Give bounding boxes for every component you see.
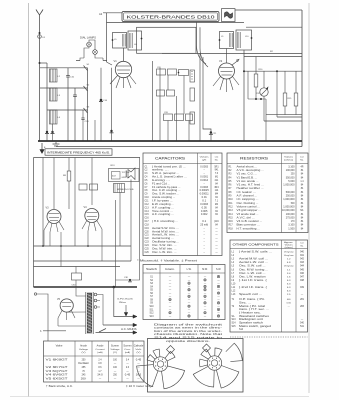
wire vertical x189 (188, 121, 190, 142)
svg-text:Ae.L.S. (transf.) after ...: Ae.L.S. (transf.) after ... (152, 176, 187, 179)
wire chassis bus thick (38, 140, 302, 142)
wire y114 (266, 114, 302, 116)
svg-text:Osc. M.W. tuning ...: Osc. M.W. tuning ... (239, 268, 269, 271)
svg-text:C15: C15 (145, 214, 150, 216)
wire top HT bus (235, 9, 302, 11)
svg-text:V1 Band E.B. ...: V1 Band E.B. ... (237, 177, 258, 179)
wire vertical x54 to V3 (53, 158, 55, 210)
svg-text:I.F. leakor ...: I.F. leakor ... (237, 191, 257, 194)
svg-text:Valve: Valve (56, 346, 64, 348)
capacitor C21 (210, 131, 212, 133)
svg-text:V3 grid stopper ...: V3 grid stopper ... (237, 209, 262, 212)
svg-text:Very low: Very low (284, 251, 294, 254)
svg-text:F1 cathode by-pass ...: F1 cathode by-pass ... (152, 186, 181, 189)
svg-text:C25: C25 (145, 248, 150, 250)
svg-text:RESISTORS: RESISTORS (240, 157, 268, 161)
svg-text:A.F. channel ...: A.F. channel ... (237, 195, 258, 198)
svg-text:(ohms): (ohms) (284, 160, 293, 162)
label b arrow (40, 330, 66, 333)
wire x200 long vertical (199, 53, 201, 141)
wire vertical x176 (176, 96, 178, 141)
svg-text:C19: C19 (145, 228, 150, 230)
svg-text:V1: V1 (114, 59, 118, 63)
resistor R8 (63, 158, 71, 210)
svg-text:Osc. L.W. coil ...: Osc. L.W. coil ... (239, 273, 266, 275)
svg-text:C22: C22 (145, 238, 150, 240)
wire vertical x88 low (87, 231, 89, 246)
valve V4 output (84, 206, 99, 223)
capacitor C30 (72, 273, 82, 287)
resistor R1 column (190, 112, 195, 124)
svg-text:R18: R18 (229, 228, 234, 230)
svg-text:C24: C24 (145, 245, 150, 247)
svg-text:(ohms): (ohms) (285, 247, 293, 249)
svg-text:Tone control ...: Tone control ... (152, 210, 173, 213)
svg-text:C18: C18 (145, 224, 150, 226)
svg-text:Volt.: Volt. (135, 348, 142, 351)
svg-text:V2: V2 (219, 59, 223, 63)
capacitor C10 (66, 68, 75, 141)
svg-text:Voltage: Voltage (79, 348, 89, 351)
valve base diagram box (148, 339, 244, 393)
capacitor C26 box (164, 112, 184, 121)
valve V2 IF amplifier (219, 59, 235, 79)
svg-text:0.01: 0.01 (202, 197, 208, 199)
mains transformer T4 core (86, 292, 93, 334)
svg-text:1,000,000: 1,000,000 (283, 185, 295, 187)
svg-text:0.05: 0.05 (202, 207, 208, 209)
wire mains lead 2 arrow (96, 331, 138, 334)
wire tap leads (97, 295, 103, 326)
svg-text:275,000: 275,000 (286, 217, 296, 219)
capacitor C38 (129, 279, 131, 281)
svg-text:Gram.: Gram. (165, 268, 175, 271)
wire vertical x102 low (101, 229, 103, 261)
capacitor C11 column (190, 88, 195, 101)
wire grid line under title (107, 21, 245, 23)
wire vertical x168 (167, 75, 169, 90)
svg-text:* Micamold. † Variable.: * Micamold. † Variable. ‡ Preset (137, 260, 198, 263)
valve V1 triode-hexode (114, 59, 132, 78)
svg-text:V1 osc. H.T. feed ...: V1 osc. H.T. feed ... (237, 185, 265, 187)
svg-text:C23: C23 (145, 242, 150, 244)
svg-text:265†: 265† (81, 378, 87, 380)
svg-text:F1 and C1d ...: F1 and C1d ... (152, 183, 170, 185)
svg-text:Aerial L.W. trim. ...: Aerial L.W. trim. ... (152, 234, 180, 237)
svg-text:List: List (215, 156, 219, 159)
svg-text:A.C. MAINS: A.C. MAINS (121, 328, 137, 331)
svg-text:Values: Values (200, 157, 210, 159)
earth wire arrow down (124, 305, 128, 316)
wire x115 rail (115, 200, 117, 287)
svg-text:O.P. trans. { Pri.: O.P. trans. { Pri. (239, 298, 266, 301)
wire band bus y88 (40, 87, 88, 89)
wire tuner bottom run (162, 52, 302, 54)
svg-text:I.F. by-pass ...: I.F. by-pass ... (152, 201, 173, 203)
wire A2 to title box (103, 12, 122, 14)
capacitor C4 antenna series (38, 32, 46, 39)
svg-text:10,000,000: 10,000,000 (282, 210, 295, 212)
wire grid row y246 (34, 245, 132, 247)
svg-text:R17: R17 (229, 225, 234, 227)
wire osc diagonal 2 (200, 27, 208, 67)
transformer tap 1 (94, 293, 97, 296)
svg-text:Aerial shunt ...: Aerial shunt ... (237, 165, 258, 168)
svg-text:} H.F. smoothing ...: } H.F. smoothing ... (152, 220, 178, 223)
IF transformer T2 primary box (219, 32, 234, 49)
transformer tap 3 (94, 306, 97, 309)
capacitor C40 box (79, 184, 87, 190)
svg-text:S.W. A. (acceptor ...: S.W. A. (acceptor ... (152, 172, 180, 175)
svg-text:0.0003: 0.0003 (200, 166, 209, 168)
svg-text:Anode: Anode (97, 345, 104, 348)
svg-text:Osc. S.W. coil ...: Osc. S.W. coil ... (239, 266, 266, 268)
svg-text:Osc. S.W. trim. ...: Osc. S.W. trim. ... (152, 244, 177, 247)
wire osc diagonal 1 (197, 22, 207, 64)
other components dotted end (230, 336, 308, 338)
capacitor C22 box (178, 70, 189, 76)
svg-text:} Aerial tuned pre. (S ...: } Aerial tuned pre. (S ... (152, 165, 186, 168)
transformer tap 2 (94, 299, 97, 302)
svg-text:List: List (300, 156, 304, 159)
svg-text:Mains switch, ganged: Mains switch, ganged (239, 325, 272, 328)
svg-text:A2: A2 (99, 12, 103, 16)
resistor R30 box (90, 184, 98, 190)
switch table (143, 265, 225, 320)
svg-text:350,000: 350,000 (286, 177, 296, 179)
capacitor C24 padder (81, 110, 89, 141)
svg-text:V4 6V6GT: V4 6V6GT (46, 374, 69, 377)
svg-text:Osc. C.W. coupling ...: Osc. C.W. coupling ... (152, 190, 181, 192)
wire row y261 (34, 260, 132, 262)
wire vertical x266 (265, 99, 267, 141)
valve base V4 diamond (167, 346, 175, 354)
svg-text:E.W. coupling ...: E.W. coupling ... (152, 204, 174, 206)
wire osc vertical x203 (203, 57, 211, 141)
svg-text:Osc. blocking ...: Osc. blocking ... (237, 203, 259, 205)
svg-text:0.002: 0.002 (201, 214, 208, 216)
wire avc y103 (285, 102, 302, 104)
svg-text:3R4: 3R4 (214, 187, 219, 189)
svg-text:C10: C10 (145, 197, 150, 199)
svg-text:CAPACITORS: CAPACITORS (155, 157, 185, 161)
IF transformer T1 secondary box (128, 31, 142, 50)
svg-text:R10: R10 (229, 199, 234, 201)
svg-text:DIAL LAMPS: DIAL LAMPS (80, 37, 96, 40)
earth arrow (40, 143, 46, 154)
svg-text:} Aerial S.W. coils ...: } Aerial S.W. coils ... (239, 251, 272, 254)
wire mains lead 1 arrow (103, 323, 137, 326)
label INTERMEDIATE FREQUENCY 465 Kc/s (45, 149, 112, 155)
svg-text:Voltage: Voltage (110, 348, 120, 351)
wire row y266.5 (34, 266, 121, 268)
capacitor C13 (46, 131, 48, 133)
wire speaker drop x131 (130, 180, 132, 262)
svg-text:I.F. stopping ...: I.F. stopping ... (237, 198, 259, 201)
svg-text:Aerial L.W. coil ...: Aerial L.W. coil ... (239, 261, 269, 264)
wire af bus y157 (34, 157, 141, 159)
svg-text:(mA): (mA) (125, 351, 130, 354)
svg-text:Speaker switch: Speaker switch (239, 321, 264, 324)
svg-text:} 1st I.F. trans. {: } 1st I.F. trans. { (239, 279, 267, 282)
svg-text:Anode: Anode (80, 345, 87, 348)
wire V3 legs (44, 222, 64, 233)
wire V2 anode diagonal (232, 59, 239, 65)
svg-text:4R: 4R (301, 166, 304, 168)
svg-text:0.00011: 0.00011 (200, 194, 210, 196)
svg-text:V1 6K8GT: V1 6K8GT (46, 358, 69, 361)
wire vertical x44 low (43, 230, 45, 246)
IF transformer T1 primary box (112, 33, 127, 49)
svg-text:Screen: Screen (123, 345, 132, 348)
capacitor C15 (51, 131, 53, 133)
wire terminal a lead (37, 294, 48, 341)
svg-text:V2 6K7GT: V2 6K7GT (46, 366, 69, 369)
wire aerial coupling horizontal (40, 62, 48, 64)
svg-text:(V): (V) (82, 352, 86, 354)
capacitor C18 (110, 68, 114, 141)
svg-text:Osc. M.W. trim. ...: Osc. M.W. trim. ... (152, 247, 177, 250)
svg-text:3,100: 3,100 (288, 166, 295, 168)
svg-text:C16: C16 (145, 218, 150, 220)
loudspeaker (126, 168, 135, 180)
svg-text:C13: C13 (145, 207, 150, 209)
svg-text:1,000,000: 1,000,000 (283, 199, 295, 201)
svg-text:List: List (300, 242, 304, 245)
svg-text:Oscillator tuning ...: Oscillator tuning ... (152, 241, 180, 244)
wire grid choke run (108, 87, 160, 89)
svg-text:Volume control ...: Volume control ... (237, 205, 261, 208)
svg-text:Osc. L.W. reaction: Osc. L.W. reaction (239, 275, 267, 278)
svg-text:0.45: 0.45 (125, 375, 131, 377)
wire speaker drop x120 (119, 193, 121, 247)
wire V4 legs (82, 221, 102, 232)
wire V1 top cap lead (107, 48, 124, 65)
svg-text:S13: S13 (149, 316, 154, 318)
svg-text:5R1: 5R1 (214, 166, 219, 168)
svg-text:A.V.C. del ...: A.V.C. del ... (237, 216, 256, 219)
svg-text:Osc. S.W. tracker ...: Osc. S.W. tracker ... (152, 193, 180, 196)
wire dial lamp feed (76, 60, 107, 62)
svg-text:Cathode: Cathode (134, 345, 144, 348)
dial lamp 1 (87, 42, 92, 47)
svg-text:S12: S12 (149, 313, 154, 315)
page right edge (308, 3, 310, 393)
resistor R10 (254, 57, 263, 100)
switch S2 (84, 85, 90, 92)
page left edge (28, 3, 30, 397)
wire y121 (264, 120, 302, 122)
resistor R7 box (157, 90, 175, 96)
wire AVC line y56 (244, 56, 302, 58)
svg-text:Screen: Screen (111, 345, 120, 348)
wire right bus vertical (301, 10, 303, 147)
resistor R3 column (190, 70, 195, 82)
svg-text:(mA): (mA) (97, 351, 102, 354)
capacitor C16 trimmer (99, 68, 108, 141)
svg-text:Aerial M.W. trim. ...: Aerial M.W. trim. ... (152, 230, 180, 233)
wire V5 legs (58, 311, 75, 321)
svg-text:5,000: 5,000 (288, 181, 295, 183)
svg-text:Switch: Switch (146, 268, 158, 271)
svg-text:M.W.: M.W. (202, 268, 208, 271)
svg-text:0.005: 0.005 (201, 211, 208, 213)
svg-text:Sec. ...: Sec. ... (239, 302, 252, 304)
svg-text:(V): (V) (113, 352, 117, 354)
valve V3 detector-AF (46, 207, 62, 224)
svg-text:250,000: 250,000 (286, 196, 296, 198)
svg-text:Wire: Wire (119, 301, 127, 304)
wire band bus y110 (47, 109, 88, 111)
wire earth run arrow (114, 287, 137, 318)
svg-text:A.V.C. decoupling ...: A.V.C. decoupling ... (237, 169, 265, 172)
svg-text:Values: Values (284, 157, 294, 159)
wire vertical x277 (276, 71, 278, 117)
svg-text:SPEECH COIL: SPEECH COIL (117, 189, 135, 191)
valve base diagram V4 hub (153, 357, 167, 371)
wire mains bus thick (34, 286, 138, 288)
svg-text:V3 6Q7GT: V3 6Q7GT (46, 370, 69, 373)
title box KOLSTER-BRANDES DB10 (122, 12, 219, 22)
svg-text:R14: R14 (229, 214, 234, 216)
svg-text:OTHER COMPONENTS: OTHER COMPONENTS (233, 243, 279, 247)
svg-text:S14: S14 (232, 322, 237, 324)
svg-text:Heather rectifier ...: Heather rectifier ... (237, 187, 265, 190)
resistors table (227, 153, 308, 233)
wire bus x152 vertical (152, 61, 154, 141)
svg-text:100,000: 100,000 (286, 170, 296, 172)
svg-text:H.T. smoothing ...: H.T. smoothing ... (237, 227, 261, 230)
wire V2 grid from T2 (226, 49, 228, 64)
wire HT negative line (56, 146, 302, 148)
svg-text:Bias corrector ...: Bias corrector ... (237, 224, 261, 227)
svg-text:V1 osc. C.G. ...: V1 osc. C.G. ... (237, 174, 258, 176)
wire vertical x61 low (60, 232, 62, 267)
page bottom edge (10, 396, 309, 398)
wire vertical x76 low (75, 267, 77, 274)
svg-text:3-Pin Earth: 3-Pin Earth (117, 298, 134, 301)
svg-text:100,000: 100,000 (286, 214, 296, 216)
svg-text:Radiogram unit: Radiogram unit (239, 318, 264, 321)
wire upper right (246, 26, 302, 28)
svg-text:S1-: S1- (232, 316, 236, 318)
svg-text:A.F. coupling ...: A.F. coupling ... (152, 206, 174, 209)
svg-text:Aerial tuning ...: Aerial tuning ... (152, 237, 174, 240)
valve voltage table (44, 341, 145, 382)
svg-text:0.0003: 0.0003 (200, 204, 209, 206)
wire vertical x95 (94, 120, 96, 141)
other components table (230, 240, 308, 332)
capacitor C12 (73, 88, 77, 141)
wire vertical x47 (46, 63, 48, 141)
svg-text:Aerial S.W. trim. ...: Aerial S.W. trim. ... (152, 227, 180, 230)
valve base side sector (226, 343, 243, 361)
wire vertical x184 (183, 76, 185, 115)
svg-text:Very low: Very low (284, 254, 294, 257)
svg-text:R12: R12 (229, 206, 234, 208)
svg-text:Aerial M.W. coil ...: Aerial M.W. coil ... (239, 258, 269, 261)
svg-text:Oscillator: Oscillator (78, 362, 89, 365)
svg-text:Curr.: Curr. (124, 348, 131, 351)
svg-text:INTERMEDIATE FREQUENCY 465 K: INTERMEDIATE FREQUENCY 465 Kc/S. (47, 151, 110, 155)
svg-text:1,500: 1,500 (288, 228, 295, 230)
wire V1 electrode legs (110, 76, 136, 89)
capacitors table (143, 153, 222, 256)
ground chassis symbol (53, 141, 60, 146)
svg-text:C17: C17 (145, 221, 150, 223)
switch S14 mains (99, 329, 106, 333)
wire vertical x75 (74, 158, 76, 247)
svg-text:opposite directions.: opposite directions. (166, 340, 211, 343)
svg-text:C26: C26 (145, 252, 150, 254)
valve base V5 petals (193, 348, 239, 388)
svg-text:V3 anode load ...: V3 anode load ... (237, 214, 259, 216)
svg-text:0.0003: 0.0003 (200, 187, 209, 189)
svg-text:C14: C14 (145, 211, 150, 213)
svg-text:1,000,000: 1,000,000 (283, 206, 295, 208)
svg-text:Anode coupling ...: Anode coupling ... (152, 196, 176, 199)
potentiometer R12 volume (256, 71, 268, 121)
antenna A1 (36, 10, 43, 142)
dial lamp 2 (93, 50, 98, 55)
coil L4 (50, 110, 61, 124)
wire vertical x168 low (167, 121, 169, 142)
svg-text:V1 osc. anode ...: V1 osc. anode ... (237, 181, 259, 183)
svg-text:Speech coil ...: Speech coil ... (239, 294, 262, 296)
resistor R15 (283, 71, 292, 114)
label 3-Pin Earth Wire (117, 298, 134, 304)
tuner unit box (137, 27, 196, 53)
svg-text:C20: C20 (145, 231, 150, 233)
wire vertical x248 (247, 71, 249, 99)
svg-text:selec ...: selec ... (152, 170, 169, 172)
wire y117 (277, 116, 302, 118)
svg-text:S15: S15 (232, 326, 237, 328)
svg-text:S10: S10 (149, 306, 154, 308)
wire vertical x52.5 (52, 124, 54, 141)
svg-text:No.: No. (300, 160, 304, 162)
valve base V5 diamond (203, 344, 211, 352)
svg-text:}116: }116 (214, 221, 219, 223)
wire detector line y71 (244, 70, 302, 72)
svg-text:S13: S13 (232, 319, 237, 321)
coil L3 (50, 88, 61, 101)
svg-text:Waveband switches: Waveband switches (239, 315, 270, 318)
valve base diagram V5 hub (207, 356, 221, 370)
top cap detail box (109, 169, 140, 182)
wire vertical x50 low (49, 232, 51, 246)
coil L1 (50, 69, 61, 82)
svg-text:S14: S14 (239, 329, 244, 331)
IF transformer T2 secondary box (236, 30, 252, 50)
output transformer T3 (114, 184, 125, 193)
svg-text:Current: Current (95, 348, 105, 351)
svg-text:500,000: 500,000 (286, 192, 296, 194)
svg-text:C21: C21 (145, 235, 150, 237)
svg-text:† Back strobe, A.C.: † Back strobe, A.C. (46, 385, 73, 388)
svg-text:} 2nd I.F. trans. {: } 2nd I.F. trans. { (239, 286, 267, 289)
svg-text:R15: R15 (229, 217, 234, 219)
wire dial lamp bracket (80, 40, 103, 61)
svg-text:No.: No. (215, 160, 219, 162)
wire vertical x43 (42, 158, 44, 247)
svg-text:{ Heater sec.: { Heater sec. (239, 311, 262, 314)
svg-text:3,100: 3,100 (288, 225, 295, 227)
wire grid bus y68 (40, 67, 88, 69)
svg-text:V4 G.B. resistor ...: V4 G.B. resistor ... (237, 220, 263, 223)
svg-text:V5 6X5GT: V5 6X5GT (46, 377, 69, 380)
resistor R5 box (157, 67, 177, 75)
